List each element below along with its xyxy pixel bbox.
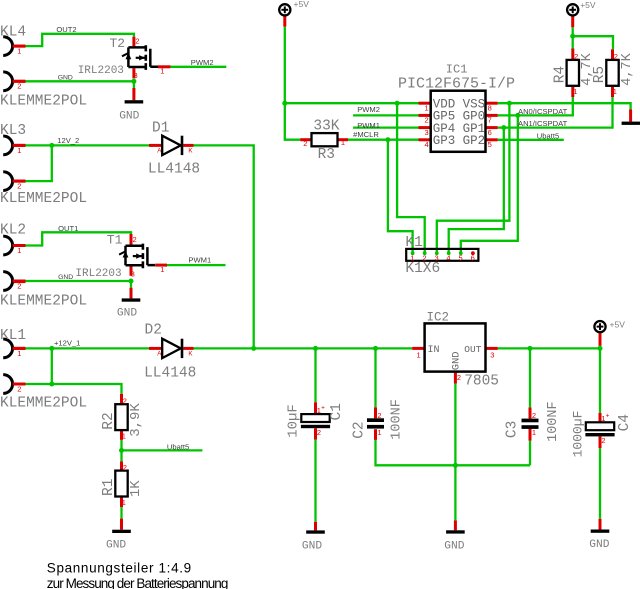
pin IC1-2: [419, 114, 431, 117]
pin KL1-1: [13, 347, 26, 350]
svg-text:KLEMME2POL: KLEMME2POL: [0, 191, 87, 207]
wire C3 top stem: [529, 348, 531, 407]
wire VSS drop to K1 pin3: [437, 103, 510, 253]
svg-text:zur Messung der Batteriespannu: zur Messung der Batteriespannung: [47, 576, 228, 589]
svg-text:IRL2203: IRL2203: [75, 268, 121, 280]
K1 pin 5 dot: [459, 251, 463, 255]
svg-text:2: 2: [422, 254, 426, 263]
pin T1 gnd stem: [130, 288, 133, 299]
capacitor C2 plate 1: [367, 418, 384, 422]
capacitor C1 plus plate: [301, 414, 329, 422]
wire C4 bottom to ground: [599, 448, 601, 519]
svg-text:PWM2: PWM2: [191, 58, 214, 67]
connector KL2 pin 1 red pin: [13, 244, 26, 247]
svg-text:2: 2: [123, 463, 127, 472]
svg-text:2: 2: [601, 436, 605, 445]
node AN0 drop junction: [515, 113, 520, 118]
connector KL3 pin 1 red pin: [13, 144, 26, 147]
pin KL4-2: [13, 80, 26, 83]
svg-text:1: 1: [122, 431, 126, 440]
pin D2 anode: [149, 347, 162, 350]
svg-text:OUT: OUT: [464, 344, 481, 355]
svg-text:KL3: KL3: [0, 123, 26, 139]
wire PWM1 stub at T1 gate: [167, 264, 226, 266]
pin T2 gate: [158, 65, 170, 68]
svg-text:2: 2: [574, 52, 578, 61]
svg-text:GND: GND: [451, 351, 463, 370]
svg-text:PWM1: PWM1: [188, 256, 211, 265]
pin T2 source: [132, 68, 135, 78]
node T1 source junction: [129, 279, 134, 284]
resistor R1 body: [115, 471, 127, 497]
node C1 junction: [313, 346, 318, 351]
svg-text:2: 2: [133, 235, 137, 244]
capacitor C4 plus plate: [586, 422, 614, 430]
capacitor C4 minus plate: [585, 433, 614, 436]
pin R3-1: [338, 138, 349, 141]
svg-text:IC1: IC1: [446, 62, 468, 76]
connector KL4 pin 2 red pin: [13, 80, 26, 83]
connector KL4 pin 2 arc: [3, 72, 12, 91]
wire +5V to R5 top: [573, 36, 613, 49]
pin C4 top: [599, 413, 602, 422]
svg-text:GP2: GP2: [463, 134, 486, 148]
svg-text:LL4148: LL4148: [148, 162, 200, 178]
svg-text:33K: 33K: [313, 118, 339, 134]
wire KL4 pin2 to T2 source (GND net): [26, 80, 134, 82]
wire OUT2 net: [26, 34, 134, 46]
connector KL1 pin 1 arc: [3, 339, 12, 358]
pin T2 gnd stem: [132, 88, 135, 100]
svg-text:GND: GND: [117, 308, 137, 320]
diode D1 cathode bar: [181, 136, 184, 155]
node +5V top right junction: [570, 34, 575, 39]
svg-text:PWM2: PWM2: [357, 105, 380, 114]
svg-text:+12V_1: +12V_1: [54, 339, 80, 348]
node KL1 pin2 junction: [49, 382, 54, 387]
wire C1 top stem: [314, 348, 316, 402]
pin KL3-2: [13, 180, 26, 183]
ground right VSS ground bar: [622, 122, 640, 125]
ground under C1 bar: [306, 530, 325, 533]
wire AN0 net to R4: [498, 97, 573, 115]
connector KL1 pin 2 red pin: [13, 383, 26, 386]
node AN1 drop junction: [501, 125, 506, 130]
svg-text:Ubatt5: Ubatt5: [537, 131, 559, 140]
svg-text:LL4148: LL4148: [144, 366, 196, 382]
svg-text:C3: C3: [505, 421, 521, 438]
svg-text:+: +: [321, 405, 325, 412]
pin R2-1: [120, 429, 123, 440]
svg-text:GND: GND: [106, 539, 126, 551]
supply P2 top right circle: [567, 4, 578, 15]
pin R1 gnd stem: [120, 519, 123, 530]
svg-text:2: 2: [135, 37, 139, 46]
svg-text:1: 1: [425, 103, 429, 112]
svg-text:1: 1: [122, 498, 126, 507]
IC IC2 box: [425, 323, 486, 371]
wire C4 top stem: [599, 348, 601, 413]
connector KL1 pin 2 arc: [3, 375, 12, 394]
wire KL1 pin1 to pin2 link: [51, 348, 53, 384]
K1 pin 1 dot: [411, 251, 415, 255]
wire C2 bottom to gnd return: [376, 440, 531, 465]
pin R2-2: [120, 394, 123, 404]
svg-text:GND: GND: [302, 540, 322, 552]
svg-text:4,7K: 4,7K: [620, 52, 635, 85]
svg-text:R4: R4: [552, 66, 568, 83]
svg-text:2: 2: [17, 82, 21, 91]
wire VDD net to IC1 pin1: [285, 102, 419, 104]
svg-text:OUT2: OUT2: [56, 25, 76, 34]
svg-text:100NF: 100NF: [546, 401, 561, 442]
svg-text:GP3: GP3: [433, 134, 456, 148]
wire KL1 pin2 to R2 top: [26, 384, 122, 394]
svg-text:+: +: [606, 413, 610, 420]
ground under T2 bar: [125, 100, 144, 103]
svg-text:KLEMME2POL: KLEMME2POL: [0, 293, 87, 309]
node KL3 junction: [49, 143, 54, 148]
node KL1 pin1 junction: [49, 346, 54, 351]
wire AN1 drop to K1 pin4: [449, 128, 504, 253]
pin D2 cathode: [183, 347, 193, 350]
svg-text:1: 1: [160, 265, 164, 274]
connector KL3 pin 2 arc: [3, 172, 12, 191]
svg-text:1: 1: [17, 47, 21, 56]
pin C1 top: [314, 402, 317, 414]
pin supply P1 stem: [283, 16, 286, 27]
wire PWM1 stub at IC1: [353, 126, 418, 128]
svg-text:OUT1: OUT1: [58, 224, 78, 233]
wire VSS to right ground: [498, 103, 631, 109]
svg-text:6: 6: [488, 128, 492, 137]
svg-text:3: 3: [134, 71, 138, 80]
svg-text:5: 5: [488, 140, 492, 149]
node rail-VDD junction: [282, 101, 287, 106]
svg-text:2: 2: [17, 384, 21, 393]
svg-text:1000µF: 1000µF: [570, 411, 585, 458]
svg-text:D2: D2: [145, 322, 162, 338]
ground under IC2 bar: [446, 530, 465, 533]
svg-text:IC2: IC2: [427, 310, 450, 324]
wire KL3 pin1 to pin2 link: [26, 145, 52, 181]
supply P3 right middle circle: [594, 321, 605, 332]
supply P1 top left circle: [279, 4, 290, 15]
node MCLR drop junction: [385, 137, 390, 142]
svg-text:3: 3: [131, 270, 135, 279]
svg-text:PIC12F675-I/P: PIC12F675-I/P: [398, 76, 515, 93]
wire OUT1 net: [26, 232, 132, 245]
svg-text:3: 3: [435, 254, 439, 263]
node VDD drop junction: [395, 101, 400, 106]
svg-text:KLEMME2POL: KLEMME2POL: [0, 396, 87, 412]
svg-text:2: 2: [614, 52, 618, 61]
pin KL1-2: [13, 383, 26, 386]
svg-text:IRL2203: IRL2203: [78, 65, 124, 77]
wire Ubatt5 stub: [122, 449, 203, 451]
svg-text:1: 1: [160, 67, 164, 76]
pin supply P2 stem: [571, 16, 574, 28]
svg-text:GND: GND: [444, 540, 464, 552]
svg-text:D1: D1: [152, 120, 169, 136]
pin IC1-7: [486, 114, 498, 117]
pin KL3-1: [13, 144, 26, 147]
resistor R4 body: [567, 60, 579, 86]
svg-text:#MCLR: #MCLR: [353, 130, 379, 139]
svg-text:AN0/ICSPDAT: AN0/ICSPDAT: [518, 107, 568, 116]
svg-text:1: 1: [17, 246, 21, 255]
svg-text:T1: T1: [107, 232, 123, 247]
pin T1 source: [130, 266, 133, 276]
wire main battery rail D2 to IC2 IN: [194, 347, 413, 349]
pin C1 bottom: [314, 428, 317, 439]
wire PWM2 stub at T2 gate: [170, 66, 226, 68]
svg-text:1: 1: [341, 138, 345, 147]
svg-text:C2: C2: [351, 421, 367, 438]
pin C4 bottom: [599, 436, 602, 448]
svg-text:1: 1: [17, 146, 21, 155]
transistor Q T2 symbol: [128, 47, 146, 67]
svg-text:6: 6: [471, 254, 475, 263]
connector KL4 pin 1 red pin: [13, 45, 26, 48]
node Ubatt5 junction: [119, 448, 124, 453]
wire C3 bottom stem: [529, 441, 531, 466]
svg-text:4: 4: [446, 254, 450, 263]
svg-text:GND: GND: [119, 110, 139, 122]
svg-text:PWM1: PWM1: [357, 121, 380, 130]
svg-text:2: 2: [123, 396, 127, 405]
pin IC2 IN: [412, 347, 424, 350]
svg-text:12V_2: 12V_2: [57, 136, 79, 145]
svg-text:1: 1: [417, 351, 421, 360]
wire R2 bottom to Ubatt5 node: [120, 440, 122, 462]
svg-text:2: 2: [377, 411, 381, 420]
wire IC2 OUT to +5V node: [498, 347, 600, 349]
connector KL2 pin 2 red pin: [13, 280, 26, 283]
svg-text:KL4: KL4: [0, 25, 26, 41]
pin right gnd stem: [629, 109, 632, 121]
svg-text:R5: R5: [592, 66, 608, 83]
svg-text:3: 3: [425, 128, 429, 137]
wire IC2 GND stem down: [454, 384, 456, 521]
node C3 junction: [528, 346, 533, 351]
svg-text:2: 2: [457, 373, 461, 382]
pin C3 top: [529, 407, 532, 418]
wire +5V right stem: [599, 346, 601, 349]
svg-text:+5V: +5V: [580, 0, 596, 10]
connector KL3 pin 2 red pin: [13, 180, 26, 183]
svg-text:C4: C4: [617, 414, 633, 431]
svg-text:1: 1: [573, 87, 577, 96]
wire R1 bottom to ground: [120, 507, 122, 519]
pin R1-2: [120, 461, 123, 470]
pin IC1-1: [419, 102, 431, 105]
wire AN1 net to R5: [498, 97, 613, 128]
svg-text:4: 4: [425, 140, 429, 149]
pin supply P3 stem: [599, 333, 602, 346]
svg-text:T2: T2: [110, 36, 126, 51]
svg-text:GND: GND: [58, 274, 73, 281]
resistor R5 body: [606, 60, 618, 86]
svg-text:R1: R1: [101, 479, 117, 496]
connector KL4 pin 1 arc: [3, 37, 12, 56]
svg-text:+5V: +5V: [610, 319, 626, 329]
resistor R3 body: [312, 133, 338, 146]
node C4 +5V junction: [598, 346, 603, 351]
pin R1-1: [120, 497, 123, 508]
pin C3 bottom: [529, 428, 532, 441]
svg-text:2: 2: [425, 116, 429, 125]
resistor R2 body: [115, 404, 127, 430]
svg-text:10µF: 10µF: [286, 404, 302, 438]
connector K1 box: [406, 249, 478, 261]
svg-text:7805: 7805: [464, 374, 499, 390]
wire T2 source to ground: [133, 81, 135, 88]
node T2 source junction: [131, 79, 136, 84]
K1 pin 6 dot unconnected: [471, 251, 475, 255]
pin R5-1: [611, 86, 614, 97]
wire 12V_2 KL3 pin1 to D1 anode: [26, 144, 150, 146]
svg-text:8: 8: [488, 103, 492, 112]
svg-text:Ubatt5: Ubatt5: [167, 442, 189, 451]
svg-text:3: 3: [490, 351, 494, 360]
transistor Q T1 symbol: [126, 246, 144, 266]
node C2 junction: [373, 346, 378, 351]
K1 pin 2 dot: [423, 251, 427, 255]
svg-text:5: 5: [459, 254, 463, 263]
svg-text:IN: IN: [428, 345, 440, 356]
connector KL2 pin 1 arc: [3, 236, 12, 255]
wire PWM2 stub at IC1: [353, 114, 418, 116]
svg-text:100NF: 100NF: [389, 399, 404, 440]
svg-text:KL1: KL1: [0, 328, 26, 344]
pin IC1-5: [486, 138, 498, 141]
pin IC2 GND: [454, 372, 457, 384]
svg-text:3,9K: 3,9K: [128, 403, 144, 437]
svg-text:2: 2: [17, 281, 21, 290]
pin D1 anode: [149, 144, 162, 147]
connector KL1 pin 1 red pin: [13, 347, 26, 350]
svg-text:2: 2: [303, 139, 307, 148]
pin R4-1: [571, 86, 574, 97]
pin C2 top: [374, 407, 377, 418]
svg-text:2: 2: [17, 182, 21, 191]
capacitor C2 plate 2: [367, 425, 384, 429]
pin C4 gnd stem: [599, 519, 602, 530]
wire AN0 drop to K1 pin5: [461, 115, 518, 253]
pin D1 cathode: [183, 144, 193, 147]
connector KL2 pin 2 arc: [3, 272, 12, 291]
diode D2 cathode bar: [181, 339, 184, 358]
svg-text:K1: K1: [405, 235, 422, 251]
wire +12V_1 KL1 pin1 to D2 anode: [26, 347, 150, 349]
diode D2 triangle: [162, 339, 181, 358]
wire +5V top right stem: [572, 27, 574, 48]
svg-text:2: 2: [532, 411, 536, 420]
wire MCLR R3 to IC1 pin4: [348, 139, 419, 141]
svg-text:1K: 1K: [128, 480, 144, 497]
pin T2 drain: [132, 37, 135, 47]
wire D1 cathode down to main rail: [194, 145, 254, 348]
pin KL2-1: [13, 244, 26, 247]
svg-text:7: 7: [488, 116, 492, 125]
wire C2 top stem: [374, 348, 376, 407]
wire VDD drop to K1 pin2: [397, 103, 425, 253]
pin IC1-4: [419, 138, 431, 141]
wire KL2 pin2 to T1 source (GND net): [26, 280, 132, 282]
svg-text:K1X6: K1X6: [405, 261, 440, 277]
wire +5V left rail down to R3: [285, 27, 300, 140]
ground under C4 bar: [591, 530, 610, 533]
ground under T1 bar: [122, 298, 141, 301]
svg-text:GND: GND: [58, 75, 73, 82]
svg-text:1: 1: [17, 349, 21, 358]
svg-text:2: 2: [317, 428, 321, 437]
node VSS drop junction: [507, 101, 512, 106]
pin R4-2: [571, 49, 574, 60]
wire MCLR drop to K1 pin1: [388, 140, 413, 253]
pin IC2 OUT: [486, 347, 498, 350]
pin T1 drain: [130, 234, 133, 245]
pin IC1-8: [486, 102, 498, 105]
ground under R1 bar: [112, 530, 131, 533]
pin IC2 gnd stem: [454, 520, 457, 530]
svg-text:1: 1: [410, 254, 414, 263]
svg-text:+5V: +5V: [294, 0, 310, 9]
svg-text:1: 1: [532, 428, 536, 437]
pin T1 gate: [155, 264, 167, 267]
node IC2 gnd return junction: [453, 463, 458, 468]
capacitor C1 minus plate: [301, 425, 330, 428]
K1 pin 4 dot: [447, 251, 451, 255]
svg-text:C1: C1: [329, 403, 345, 420]
wire Ubatt5 stub at IC1: [498, 139, 564, 141]
pin KL2-2: [13, 280, 26, 283]
svg-text:GND: GND: [589, 539, 609, 551]
pin KL4-1: [13, 45, 26, 48]
wire C1 bottom to ground: [314, 440, 316, 522]
node D1 branch junction: [251, 346, 256, 351]
svg-text:1: 1: [613, 87, 617, 96]
svg-text:R2: R2: [101, 412, 117, 429]
K1 pin 3 dot: [435, 251, 439, 255]
svg-text:R3: R3: [318, 147, 335, 163]
capacitor C3 plate 1: [522, 419, 539, 423]
pin IC1-3: [419, 126, 431, 129]
svg-text:1: 1: [377, 428, 381, 437]
svg-text:Spannungsteiler 1:4.9: Spannungsteiler 1:4.9: [47, 561, 192, 576]
IC IC1 box: [431, 91, 486, 152]
svg-text:AN1/ICSPDAT: AN1/ICSPDAT: [518, 119, 568, 128]
capacitor C3 plate 2: [522, 425, 539, 429]
pin R5-2: [611, 49, 614, 60]
pin C1 gnd stem: [314, 522, 317, 531]
pin IC1-6: [486, 126, 498, 129]
pin C2 bottom: [374, 429, 377, 440]
svg-text:KLEMME2POL: KLEMME2POL: [0, 94, 87, 110]
wire T1 source to ground: [130, 281, 132, 288]
diode D1 triangle: [162, 136, 181, 155]
svg-text:KL2: KL2: [0, 223, 26, 239]
pin R3-2: [300, 138, 311, 141]
connector KL3 pin 1 arc: [3, 136, 12, 155]
